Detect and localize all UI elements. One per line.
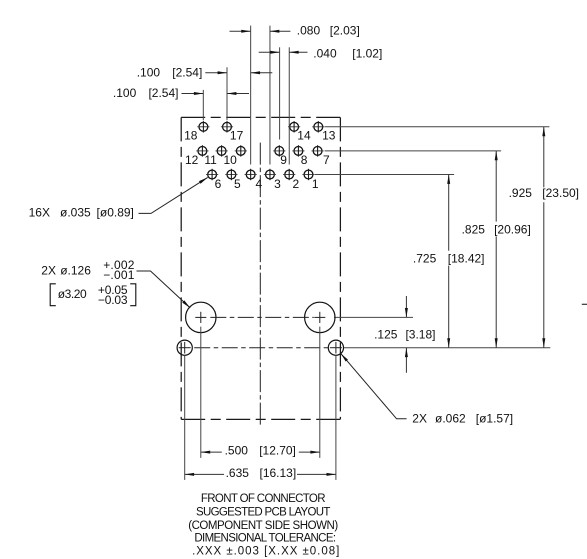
svg-text:−.001: −.001 <box>103 268 135 282</box>
svg-text:6: 6 <box>215 177 222 191</box>
svg-text:[2.03]: [2.03] <box>330 23 360 37</box>
svg-text:11: 11 <box>204 153 217 167</box>
svg-text:16X: 16X <box>29 206 50 220</box>
svg-text:[23.50]: [23.50] <box>542 186 579 200</box>
svg-text:[ø1.57]: [ø1.57] <box>476 412 513 426</box>
svg-text:.XXX ±.003 [X.XX ±0.08]: .XXX ±.003 [X.XX ±0.08] <box>192 545 339 557</box>
svg-text:3: 3 <box>274 177 281 191</box>
svg-text:[ø0.89]: [ø0.89] <box>97 206 134 220</box>
svg-text:10: 10 <box>224 153 238 167</box>
svg-text:2X: 2X <box>412 412 427 426</box>
svg-text:[3.18]: [3.18] <box>405 327 435 341</box>
svg-text:4: 4 <box>256 177 263 191</box>
svg-text:9: 9 <box>280 153 287 167</box>
svg-text:ø.035: ø.035 <box>60 206 91 220</box>
svg-text:SUGGESTED PCB LAYOUT: SUGGESTED PCB LAYOUT <box>196 507 330 519</box>
svg-text:[2.54]: [2.54] <box>172 66 202 80</box>
svg-text:.125: .125 <box>374 327 398 341</box>
svg-text:FRONT OF CONNECTOR: FRONT OF CONNECTOR <box>201 493 326 505</box>
svg-text:[16.13]: [16.13] <box>259 466 296 480</box>
svg-text:[12.70]: [12.70] <box>259 443 296 457</box>
svg-text:ø.126: ø.126 <box>60 263 91 277</box>
svg-text:1: 1 <box>312 177 319 191</box>
svg-text:.100: .100 <box>113 86 137 100</box>
svg-text:.100: .100 <box>137 66 161 80</box>
svg-text:ø3.20: ø3.20 <box>58 287 87 301</box>
svg-text:(COMPONENT SIDE SHOWN): (COMPONENT SIDE SHOWN) <box>188 520 338 532</box>
svg-text:.635: .635 <box>226 466 250 480</box>
svg-text:.825: .825 <box>462 222 486 236</box>
svg-text:[18.42]: [18.42] <box>448 251 485 265</box>
svg-text:18: 18 <box>184 128 198 142</box>
svg-text:12: 12 <box>185 153 199 167</box>
svg-text:2X: 2X <box>41 263 56 277</box>
svg-text:7: 7 <box>323 153 330 167</box>
svg-text:.040: .040 <box>313 46 337 60</box>
svg-text:.725: .725 <box>413 251 437 265</box>
svg-text:2: 2 <box>293 177 300 191</box>
svg-text:.080: .080 <box>297 23 321 37</box>
svg-text:5: 5 <box>234 177 241 191</box>
svg-text:17: 17 <box>230 128 244 142</box>
svg-text:14: 14 <box>297 128 311 142</box>
svg-text:13: 13 <box>322 128 336 142</box>
svg-text:[20.96]: [20.96] <box>494 222 531 236</box>
svg-text:[2.54]: [2.54] <box>148 86 178 100</box>
svg-text:[1.02]: [1.02] <box>352 46 382 60</box>
svg-text:8: 8 <box>301 153 308 167</box>
svg-text:DIMENSIONAL TOLERANCE:: DIMENSIONAL TOLERANCE: <box>194 533 336 545</box>
svg-text:.925: .925 <box>509 186 533 200</box>
svg-text:.500: .500 <box>225 443 249 457</box>
svg-text:ø.062: ø.062 <box>435 412 466 426</box>
svg-text:−0.03: −0.03 <box>98 293 128 307</box>
